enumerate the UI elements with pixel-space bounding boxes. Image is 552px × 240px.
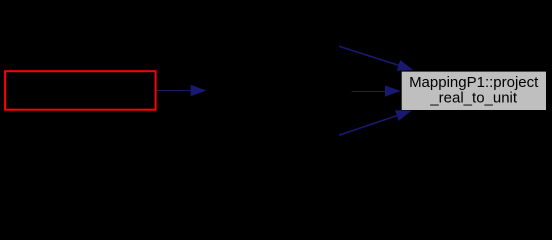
node: MappingP1::project_real_to_unit (current, gray) bbox=[402, 72, 546, 110]
node: truncated caller (red box) bbox=[5, 71, 156, 110]
wire: edge from red caller node to hidden middle node bbox=[157, 85, 207, 96]
svg-text:_real_to_unit: _real_to_unit bbox=[429, 90, 518, 107]
svg-text:MappingP1::project: MappingP1::project bbox=[409, 74, 539, 91]
wire: edge from hidden lower caller into MappingP1::project_real_to_unit bbox=[339, 110, 412, 135]
wire: edge from hidden upper caller into MappingP1::project_real_to_unit bbox=[339, 46, 413, 70]
wire: edge from hidden middle caller into MappingP1::project_real_to_unit bbox=[352, 85, 401, 96]
